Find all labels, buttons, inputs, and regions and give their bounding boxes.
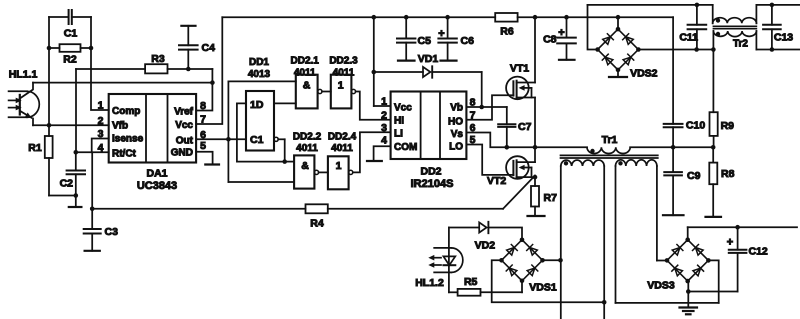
svg-text:C7: C7 [518, 121, 532, 133]
svg-text:2: 2 [98, 115, 104, 127]
svg-text:Vfb: Vfb [112, 121, 128, 132]
svg-text:Out: Out [176, 135, 194, 146]
svg-text:DD2.2: DD2.2 [293, 132, 322, 143]
svg-text:VD1: VD1 [418, 53, 439, 65]
svg-text:+: + [558, 27, 564, 39]
svg-text:C3: C3 [105, 226, 119, 238]
svg-text:5: 5 [200, 140, 206, 152]
svg-text:8: 8 [200, 100, 206, 112]
svg-text:VDS1: VDS1 [529, 281, 557, 293]
svg-text:4011: 4011 [294, 67, 316, 78]
svg-text:C4: C4 [202, 42, 216, 54]
svg-text:DD1: DD1 [249, 57, 269, 68]
svg-text:&: & [301, 160, 309, 172]
svg-text:LI: LI [394, 128, 403, 139]
svg-text:HL1.1: HL1.1 [9, 69, 38, 81]
svg-text:Tr1: Tr1 [602, 134, 618, 146]
svg-text:GND: GND [171, 148, 193, 159]
svg-text:R6: R6 [500, 26, 514, 38]
svg-text:VDS3: VDS3 [647, 280, 675, 292]
svg-text:HO: HO [448, 116, 463, 127]
svg-text:R5: R5 [464, 276, 478, 288]
svg-text:C6: C6 [461, 35, 475, 47]
svg-text:DD2.3: DD2.3 [329, 56, 358, 67]
svg-text:Vcc: Vcc [394, 102, 412, 113]
svg-text:2: 2 [381, 109, 387, 121]
svg-text:C11: C11 [679, 32, 698, 44]
svg-text:1: 1 [381, 96, 387, 108]
svg-text:R7: R7 [544, 192, 558, 204]
svg-text:C10: C10 [686, 120, 705, 132]
svg-text:LO: LO [449, 142, 463, 153]
svg-text:C9: C9 [687, 170, 701, 182]
svg-text:1: 1 [336, 160, 342, 172]
svg-text:C2: C2 [60, 178, 74, 190]
svg-text:Rt/Ct: Rt/Ct [112, 149, 137, 160]
svg-text:3: 3 [98, 128, 104, 140]
svg-text:VD2: VD2 [475, 240, 496, 252]
svg-text:C1: C1 [250, 134, 264, 146]
svg-text:C8: C8 [543, 34, 557, 46]
svg-text:Vs: Vs [451, 129, 464, 140]
svg-text:R4: R4 [310, 218, 324, 230]
svg-text:COM: COM [394, 142, 417, 153]
svg-text:HI: HI [394, 116, 404, 127]
svg-text:VT2: VT2 [487, 175, 506, 187]
svg-text:HL1.2: HL1.2 [415, 277, 444, 289]
svg-text:4: 4 [98, 142, 104, 154]
svg-text:R1: R1 [28, 142, 42, 154]
svg-text:4011: 4011 [331, 143, 353, 154]
svg-text:C12: C12 [749, 246, 768, 258]
svg-text:R8: R8 [721, 168, 735, 180]
svg-text:4013: 4013 [248, 69, 271, 80]
svg-text:7: 7 [200, 114, 206, 126]
svg-text:DD2.1: DD2.1 [291, 56, 320, 67]
svg-text:C13: C13 [774, 32, 793, 44]
svg-text:&: & [303, 79, 311, 91]
svg-text:3: 3 [381, 122, 387, 134]
svg-text:+: + [438, 28, 444, 40]
svg-text:R9: R9 [721, 120, 735, 132]
svg-text:VDS2: VDS2 [630, 68, 658, 80]
svg-text:DA1: DA1 [146, 168, 167, 180]
svg-text:Vref: Vref [174, 107, 194, 118]
svg-text:Comp: Comp [112, 106, 140, 117]
svg-text:DD2: DD2 [420, 166, 441, 178]
svg-text:+: + [727, 237, 733, 249]
svg-text:VT1: VT1 [510, 63, 529, 75]
svg-text:4011: 4011 [333, 67, 355, 78]
svg-text:Tr2: Tr2 [733, 39, 748, 50]
svg-text:IR2104S: IR2104S [411, 178, 454, 190]
svg-text:R2: R2 [63, 54, 77, 66]
svg-text:1D: 1D [250, 99, 264, 111]
svg-text:C5: C5 [418, 35, 432, 47]
svg-text:R3: R3 [151, 53, 165, 65]
svg-text:4: 4 [381, 135, 387, 147]
svg-text:C1: C1 [64, 28, 78, 40]
svg-text:1: 1 [98, 100, 104, 112]
svg-text:Isense: Isense [112, 134, 144, 145]
svg-text:UC3843: UC3843 [137, 180, 177, 192]
svg-text:DD2.4: DD2.4 [328, 132, 357, 143]
svg-text:Vb: Vb [450, 102, 463, 113]
svg-text:Vcc: Vcc [175, 120, 193, 131]
svg-text:4011: 4011 [296, 143, 318, 154]
svg-text:1: 1 [338, 79, 344, 91]
